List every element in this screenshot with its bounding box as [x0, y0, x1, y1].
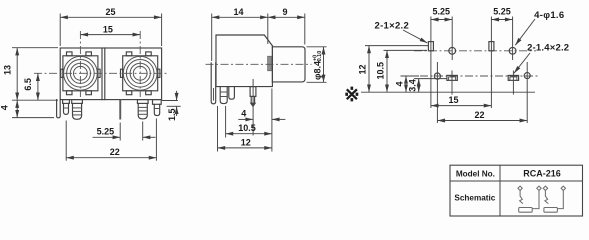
slot hole H6 1.4x2.2: [447, 75, 457, 80]
svg-text:4: 4: [0, 105, 9, 110]
svg-text:22: 22: [474, 110, 484, 120]
hole H5 round 1.6: [434, 73, 440, 79]
schematic pin P3 terminal: [543, 186, 547, 190]
horizontal center line: [34, 72, 169, 74]
svg-text:6.5: 6.5: [23, 78, 33, 91]
jack J1 side tabs: [61, 69, 63, 77]
svg-text:3.4: 3.4: [407, 79, 417, 92]
dim 15: [431, 105, 492, 107]
slot hole H3 1x2.2: [489, 42, 494, 51]
dim 4 extension line: [271, 89, 273, 152]
svg-text:9: 9: [282, 7, 287, 17]
dim 10.5 extension line: [225, 106, 227, 138]
dim 10.5: [226, 133, 272, 135]
table outer border: [450, 165, 583, 216]
pin S3 shaft with barb tip: [251, 96, 254, 103]
dim 4: [405, 76, 407, 92]
body seam line: [104, 48, 106, 100]
jack J1 square: [63, 56, 98, 91]
hole H4 round 1.6: [509, 47, 516, 54]
pcb bottom row center line: [420, 75, 538, 77]
svg-text:4: 4: [394, 81, 404, 86]
svg-text:2-1.4×2.2: 2-1.4×2.2: [527, 43, 569, 54]
jack J2 circles: [123, 56, 157, 90]
mounting peg front view: [57, 100, 61, 118]
jack J2 vertical center line: [139, 31, 141, 97]
svg-text:25: 25: [105, 7, 115, 17]
dim 4 (side view): [238, 118, 253, 120]
schematic pin P1 wire and switch contact: [520, 191, 523, 204]
side view body: [216, 35, 272, 87]
contact tab: [268, 56, 272, 71]
body seam line: [101, 48, 103, 100]
pin A bullet: [64, 103, 69, 114]
dim 5.25: [93, 136, 121, 138]
svg-text:RCA-216: RCA-216: [523, 169, 561, 179]
schematic pin P2 wire: [532, 191, 539, 209]
svg-text:5.25: 5.25: [433, 7, 451, 17]
svg-text:1.5: 1.5: [167, 108, 177, 121]
table horizontal divider: [450, 180, 583, 182]
H3 vertical line: [490, 17, 492, 109]
svg-text:※: ※: [344, 85, 360, 106]
dim 25 extension lines: [59, 14, 61, 47]
table vertical divider: [499, 165, 501, 216]
svg-text:13: 13: [3, 65, 13, 75]
dim 1.5: [176, 91, 178, 101]
jack J2 bottom tabs: [126, 91, 132, 95]
hole H2 round 1.6: [449, 47, 456, 54]
H1 vertical line: [430, 17, 432, 109]
svg-text:12: 12: [241, 137, 251, 147]
pin S1: [220, 87, 227, 104]
svg-text:10.5: 10.5: [375, 62, 385, 80]
pin B collar: [72, 100, 83, 104]
pin S2: [229, 87, 235, 100]
dim 22 extension lines: [65, 121, 67, 161]
connector body front view: [60, 48, 161, 100]
dim 22: [437, 120, 527, 122]
svg-text:10.5: 10.5: [238, 123, 256, 133]
dim 3.4: [418, 79, 420, 93]
jack J1 circles: [64, 56, 98, 90]
hole H8 round 1.6: [524, 73, 530, 79]
jack J2 top tabs: [126, 52, 132, 56]
jack J1 vertical center line: [79, 31, 81, 97]
dim 12: [368, 46, 370, 93]
jack J2 side tabs: [121, 69, 123, 77]
schematic actuator R2: [544, 208, 558, 213]
schematic pin P4 terminal: [561, 186, 565, 190]
svg-text:14: 14: [233, 7, 243, 17]
pin D center contact: [138, 103, 147, 119]
svg-text:15: 15: [103, 25, 113, 35]
svg-text:4: 4: [241, 108, 246, 118]
svg-text:Model No.: Model No.: [456, 170, 495, 179]
schematic pin P1 terminal: [518, 186, 522, 190]
slot hole H7 1.4x2.2: [508, 75, 518, 80]
dim phi 8.4: [323, 47, 325, 83]
dim 13: [16, 48, 18, 100]
jack J1 bottom tabs: [67, 91, 73, 95]
mounting peg side view: [211, 63, 216, 104]
dim 1.5 extension lines: [162, 100, 178, 102]
dim 25: [60, 16, 161, 18]
pin A collar: [63, 100, 70, 104]
dim 4 extension line: [401, 75, 420, 77]
svg-text:22: 22: [110, 147, 120, 157]
pin D collar: [137, 100, 148, 104]
pin B center contact: [73, 103, 82, 119]
H2 vertical line: [451, 17, 453, 61]
schematic pin P3 wire and switch contact: [545, 191, 548, 204]
dim 14: [212, 16, 268, 18]
dim 5.25 right: [491, 19, 512, 21]
barrel center line: [206, 63, 312, 65]
svg-text:5.25: 5.25: [97, 126, 115, 136]
schematic pin P4 wire: [557, 191, 563, 209]
jack J1 top tabs: [67, 52, 73, 56]
svg-text:Schematic: Schematic: [454, 194, 495, 203]
schematic pin P2 terminal: [537, 186, 541, 190]
pin E bullet: [154, 104, 159, 115]
dim 6.5: [37, 73, 39, 100]
dim 12 extension line: [365, 45, 429, 47]
dim 15: [80, 34, 140, 36]
svg-text:12: 12: [357, 64, 367, 74]
dim 22: [66, 157, 156, 159]
H7 vertical line: [512, 71, 514, 95]
H5 vertical line: [436, 62, 438, 123]
dim 9: [268, 16, 305, 18]
H4 vertical line: [512, 17, 514, 61]
H8 vertical line: [526, 62, 528, 123]
dim 3.4 extension line: [414, 78, 447, 80]
pin C flat pin: [119, 100, 121, 120]
barrel: [272, 47, 305, 82]
pcb board reference edge: [361, 91, 535, 93]
pcb top row center line: [414, 50, 536, 52]
dim 4 extension line: [12, 117, 54, 119]
svg-text:φ8.4+0-0.10: φ8.4+0-0.10: [313, 51, 324, 80]
dim 12 extension line: [217, 106, 219, 152]
dim 12: [218, 147, 272, 149]
pin S3 center line: [252, 79, 254, 136]
dim 4: [16, 100, 18, 117]
dim phi 8.4 extension lines: [307, 46, 327, 48]
pin S3 collar: [250, 87, 256, 97]
pin E collar: [153, 100, 162, 105]
H6 vertical line: [451, 71, 453, 95]
dim 5.25 left: [431, 19, 452, 21]
dim 5.25 extension lines: [119, 123, 121, 141]
slot hole H1 1x2.2: [428, 42, 433, 51]
dim 10.5 extension line: [384, 49, 428, 51]
dim 10.5: [386, 50, 388, 92]
dim 13 extension lines: [12, 47, 58, 49]
barrel junction line: [271, 47, 273, 82]
dim 14 extension lines: [211, 14, 213, 62]
schematic actuator R1: [519, 208, 533, 213]
svg-text:15: 15: [448, 95, 458, 105]
svg-text:4-φ1.6: 4-φ1.6: [534, 10, 564, 21]
jack J2 square: [123, 56, 158, 91]
svg-text:5.25: 5.25: [493, 7, 511, 17]
